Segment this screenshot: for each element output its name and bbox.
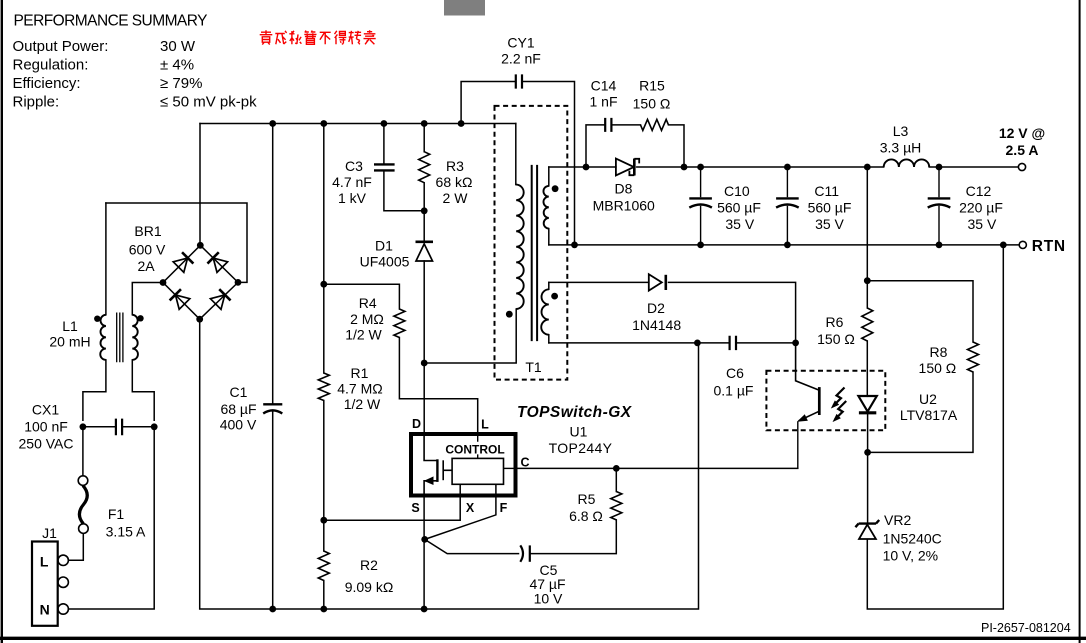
svg-text:2 MΩ: 2 MΩ — [350, 311, 384, 327]
svg-text:1N5240C: 1N5240C — [883, 531, 942, 547]
node X line junction — [320, 517, 327, 524]
node R8 top junction — [864, 277, 871, 284]
T1 core lines — [532, 165, 537, 341]
svg-text:1/2 W: 1/2 W — [344, 396, 381, 412]
T1 bias winding — [541, 289, 549, 334]
svg-text:D1: D1 — [375, 238, 393, 254]
wire D2 cathode to C6 node — [669, 282, 796, 343]
wire HV+ top rail — [200, 123, 516, 125]
gray redaction block — [444, 0, 485, 16]
svg-text:L: L — [40, 554, 49, 570]
svg-text:10 V, 2%: 10 V, 2% — [883, 548, 939, 564]
capacitor C3 leads — [384, 124, 424, 211]
svg-text:BR1: BR1 — [134, 223, 161, 239]
capacitor C10 — [689, 167, 712, 245]
T1 primary winding — [516, 185, 524, 309]
wire secondary bottom stub — [548, 229, 550, 245]
wire sense bus mid segment — [323, 401, 325, 552]
L1 phase dot right — [137, 315, 143, 321]
svg-text:UF4005: UF4005 — [360, 254, 410, 270]
wire BR1 minus output down and primary ground rail — [200, 319, 699, 609]
CX1 node left junction — [80, 423, 87, 430]
wire C pin line to opto emitter — [516, 467, 798, 469]
U1 internal MOSFET — [424, 434, 452, 496]
svg-text:CX1: CX1 — [32, 402, 59, 418]
svg-text:LTV817A: LTV817A — [900, 407, 958, 423]
svg-text:Regulation:: Regulation: — [13, 57, 89, 74]
svg-text:1N4148: 1N4148 — [632, 317, 681, 333]
wire LED to VR2 — [867, 412, 869, 523]
node 12V-R6 junction — [864, 164, 871, 171]
svg-text:Efficiency:: Efficiency: — [13, 75, 81, 92]
output terminal 12V — [1018, 163, 1025, 170]
diode D2 — [649, 274, 666, 290]
capacitor C1 bus wire — [272, 124, 274, 610]
op-amp U1 TOPSwitch control block outer box — [411, 434, 516, 496]
BR1 diode top-left — [173, 252, 194, 273]
svg-text:D2: D2 — [647, 300, 665, 316]
BR1 node right junction — [235, 279, 242, 286]
node 12V-C10 junction — [697, 164, 704, 171]
capacitor CX1 — [116, 419, 122, 436]
U2 phototransistor — [796, 343, 820, 469]
resistor R5 — [611, 492, 622, 520]
wire R5 top lead — [615, 468, 617, 491]
svg-text:2.2 nF: 2.2 nF — [501, 51, 541, 67]
U1 C pin lead — [504, 467, 516, 469]
U2 photodiode LED — [858, 396, 876, 413]
svg-text:4.7 nF: 4.7 nF — [332, 174, 372, 190]
BR1 node top junction — [197, 242, 204, 249]
border frame right edge — [1079, 0, 1081, 643]
wire C5 to R5 — [530, 520, 617, 554]
node bias-ground junction — [694, 340, 701, 347]
svg-text:20 mH: 20 mH — [49, 334, 90, 350]
svg-text:R2: R2 — [360, 557, 378, 573]
wire N pin to CX1 right node — [69, 427, 155, 609]
svg-text:CONTROL: CONTROL — [445, 443, 504, 457]
wire 12V rail D8 to L3 — [637, 166, 884, 168]
svg-text:C6: C6 — [726, 365, 744, 381]
node 12V-snubber left junction — [583, 164, 590, 171]
node RTN-C10 junction — [697, 242, 704, 249]
node ground-R2 junction — [320, 606, 327, 613]
svg-text:C1: C1 — [230, 384, 248, 400]
node RTN-CY1 junction — [571, 242, 578, 249]
node RTN-C11 junction — [784, 242, 791, 249]
svg-text:1/2 W: 1/2 W — [345, 327, 382, 343]
svg-text:35 V: 35 V — [725, 216, 754, 232]
svg-text:PERFORMANCE SUMMARY: PERFORMANCE SUMMARY — [14, 13, 208, 30]
svg-text:400 V: 400 V — [220, 417, 257, 433]
svg-text:R1: R1 — [351, 365, 369, 381]
wire 12V rail L3 to output — [929, 166, 1018, 168]
resistor R6 — [862, 308, 873, 341]
svg-text:560 µF: 560 µF — [808, 200, 852, 216]
svg-text:1 nF: 1 nF — [589, 94, 617, 110]
svg-text:R8: R8 — [930, 344, 948, 360]
svg-text:2 W: 2 W — [443, 190, 469, 206]
wire snubber loop — [586, 125, 684, 167]
svg-text:R6: R6 — [826, 314, 844, 330]
node clamp bottom junction — [421, 207, 428, 214]
U1 L pin lead inside — [477, 434, 479, 458]
transformer T1 dashed box — [495, 106, 568, 380]
wire R4 bottom to L pin — [399, 338, 477, 435]
node D pin to T1 primary junction — [421, 360, 428, 367]
svg-text:U1: U1 — [570, 424, 588, 440]
wire S node diagonal to C5 — [425, 539, 519, 553]
svg-text:30 W: 30 W — [160, 38, 196, 55]
node 12V-snubber right junction — [681, 164, 688, 171]
svg-text:150 Ω: 150 Ω — [633, 96, 671, 112]
node LED-R8 bottom junction — [864, 449, 871, 456]
CX1 node right junction — [151, 423, 158, 430]
diode D1 — [416, 242, 434, 261]
inductor L3 — [884, 159, 929, 167]
svg-text:6.8 Ω: 6.8 Ω — [569, 508, 603, 524]
svg-text:3.15 A: 3.15 A — [106, 524, 146, 540]
wire 12V rail secondary to D8 — [549, 166, 616, 168]
wire BR1 left node to L1 right winding — [132, 283, 163, 315]
wire CX1 left node down to fuse — [82, 427, 84, 476]
node S ground junction — [421, 606, 428, 613]
svg-text:Ripple:: Ripple: — [13, 94, 60, 111]
inductor L1 common-mode choke — [100, 315, 138, 360]
svg-text:≤ 50 mV pk-pk: ≤ 50 mV pk-pk — [160, 94, 257, 111]
svg-text:100 nF: 100 nF — [24, 419, 68, 435]
svg-text:150 Ω: 150 Ω — [817, 331, 855, 347]
svg-text:D: D — [412, 417, 421, 431]
capacitor C14 — [605, 118, 611, 132]
optocoupler U2 dashed box — [766, 371, 885, 431]
svg-text:X: X — [466, 501, 475, 515]
diode D8 MBR1060 schottky — [616, 159, 639, 176]
wire CY1 branch — [461, 82, 574, 245]
svg-text:220 µF: 220 µF — [959, 200, 1003, 216]
node S-F-C5 junction — [421, 536, 428, 543]
svg-text:TOP244Y: TOP244Y — [549, 440, 613, 456]
capacitor C3 — [374, 164, 395, 170]
svg-text:35 V: 35 V — [967, 216, 996, 232]
svg-text:Output Power:: Output Power: — [13, 38, 109, 55]
wire left AC vertical to L1 — [105, 203, 107, 315]
svg-text:600 V: 600 V — [129, 242, 166, 258]
wire X pin branch — [324, 484, 460, 520]
L1 core lines — [117, 313, 123, 363]
wire CX1 left lead — [83, 426, 115, 428]
svg-text:N: N — [40, 602, 50, 618]
wire AC loop rectangle top — [106, 203, 247, 282]
bridge rectifier BR1 — [163, 245, 238, 319]
wire L pin to fuse — [69, 534, 84, 561]
svg-text:T1: T1 — [525, 359, 542, 375]
svg-text:3.3 µH: 3.3 µH — [880, 140, 922, 156]
svg-text:1 kV: 1 kV — [338, 190, 367, 206]
svg-text:F: F — [500, 501, 508, 515]
BR1 diode top-right — [207, 252, 228, 273]
node D2-C6 junction — [792, 340, 799, 347]
capacitor CY1 — [516, 74, 522, 88]
resistor R15 — [641, 119, 669, 130]
BR1 node left junction — [160, 279, 167, 286]
wire RTN rail — [549, 244, 1019, 246]
wire CX1 right lead — [123, 426, 154, 428]
wire clamp bus R3 and D1 — [423, 124, 425, 435]
svg-text:10 V: 10 V — [534, 591, 563, 607]
svg-text:C3: C3 — [345, 158, 363, 174]
svg-text:L: L — [481, 418, 489, 432]
wire R6 to LED — [866, 341, 868, 396]
svg-text:RTN: RTN — [1032, 238, 1066, 255]
svg-text:C10: C10 — [724, 183, 750, 199]
wire R4 branch from bus — [324, 284, 400, 309]
wire BR1 plus output to rail — [199, 124, 201, 246]
node R4 tap junction — [320, 281, 327, 288]
wire L1 left bottom to CX1 — [83, 360, 106, 420]
wire bias top to D2 — [549, 281, 649, 283]
wire bias bottom to C6 — [549, 342, 729, 344]
svg-text:PI-2657-081204: PI-2657-081204 — [981, 621, 1071, 635]
T1 secondary phase dot — [552, 185, 559, 192]
connector J1 — [32, 542, 68, 626]
zener diode VR2 — [855, 520, 879, 539]
svg-text:U2: U2 — [919, 391, 937, 407]
wire T1 primary bottom branch — [424, 309, 516, 363]
svg-text:150 Ω: 150 Ω — [919, 360, 957, 376]
wire R6 bus from 12V rail — [866, 167, 868, 308]
node RTN loop junction — [1000, 242, 1007, 249]
wire R8 top branch — [867, 281, 973, 342]
node rail-sense bus junction — [320, 120, 327, 127]
BR1 node bottom junction — [196, 316, 203, 323]
svg-text:68 µF: 68 µF — [220, 401, 256, 417]
wire sense bus lower segment — [323, 581, 325, 610]
wire S pin down to ground — [423, 496, 425, 610]
output terminal RTN — [1019, 241, 1026, 248]
L1 phase dot left — [94, 316, 100, 322]
resistor R1 — [318, 373, 329, 400]
node rail-CY1 junction — [458, 120, 465, 127]
wire secondary top stub — [548, 167, 550, 186]
BR1 diode bottom-left — [170, 289, 191, 310]
svg-text:± 4%: ± 4% — [160, 57, 194, 74]
svg-text:C: C — [520, 456, 529, 470]
U2 light arrows — [832, 388, 846, 422]
svg-text:C12: C12 — [966, 183, 992, 199]
wire VR2 to bottom loop up to RTN — [867, 245, 1003, 609]
capacitor C12 — [928, 167, 951, 245]
svg-text:L1: L1 — [62, 318, 78, 334]
svg-text:L3: L3 — [893, 123, 909, 139]
node 12V-C11 junction — [784, 164, 791, 171]
svg-text:VR2: VR2 — [884, 512, 911, 528]
capacitor C6 — [730, 336, 736, 350]
node C-R5 junction — [613, 465, 620, 472]
BR1 diode bottom-right — [210, 289, 231, 310]
svg-text:35 V: 35 V — [815, 216, 844, 232]
svg-text:2.5 A: 2.5 A — [1006, 142, 1039, 158]
wire R8 bottom branch — [868, 372, 973, 452]
svg-text:J1: J1 — [42, 525, 57, 541]
capacitor C5 — [520, 545, 530, 561]
svg-text:F1: F1 — [108, 506, 125, 522]
svg-text:TOPSwitch-GX: TOPSwitch-GX — [517, 404, 633, 421]
resistor R8 — [968, 342, 979, 372]
svg-text:R3: R3 — [446, 158, 464, 174]
border frame left edge — [1, 0, 3, 643]
T1 bias phase dot — [551, 293, 558, 300]
svg-text:R4: R4 — [359, 295, 377, 311]
wire F pin lead and diagonal — [425, 484, 496, 539]
capacitor C1 — [263, 404, 282, 413]
svg-text:≥ 79%: ≥ 79% — [160, 75, 202, 92]
svg-text:68 kΩ: 68 kΩ — [436, 174, 473, 190]
wire bias bottom stub — [548, 335, 550, 343]
border frame bottom edge — [0, 637, 1086, 640]
svg-text:9.09 kΩ: 9.09 kΩ — [345, 579, 394, 595]
U1 CONTROL inner box — [452, 458, 503, 484]
resistor R2 — [318, 551, 329, 580]
wire C6 right lead — [737, 342, 796, 344]
svg-text:CY1: CY1 — [507, 35, 534, 51]
svg-text:S: S — [411, 501, 419, 515]
svg-text:R15: R15 — [639, 78, 665, 94]
svg-text:C14: C14 — [591, 78, 617, 94]
svg-text:4.7 MΩ: 4.7 MΩ — [337, 381, 382, 397]
wire sense bus upper segment — [323, 124, 325, 374]
node rail-C1 junction — [269, 120, 276, 127]
svg-text:0.1 µF: 0.1 µF — [714, 383, 754, 399]
node rail-R3 junction — [421, 120, 428, 127]
svg-text:2A: 2A — [137, 258, 155, 274]
wire bias top stub — [548, 282, 550, 289]
wire L1 right bottom to CX1 — [132, 360, 154, 420]
svg-text:MBR1060: MBR1060 — [593, 198, 655, 214]
T1 secondary winding — [543, 186, 548, 229]
svg-text:12 V @: 12 V @ — [999, 125, 1045, 141]
node ground-C1 junction — [269, 606, 276, 613]
red watermark text — [260, 30, 376, 44]
fuse F1 — [78, 476, 88, 534]
svg-text:R5: R5 — [578, 491, 596, 507]
wire T1 primary top stub — [515, 124, 517, 185]
resistor R3 — [419, 152, 430, 183]
node rail-C3 junction — [381, 120, 388, 127]
svg-text:D8: D8 — [615, 181, 633, 197]
node RTN-C12 junction — [936, 242, 943, 249]
capacitor C11 — [776, 167, 799, 245]
node 12V-C12 junction — [936, 164, 943, 171]
T1 primary phase dot — [506, 311, 513, 318]
svg-text:C11: C11 — [814, 183, 839, 199]
resistor R4 — [394, 309, 405, 338]
svg-text:250 VAC: 250 VAC — [19, 436, 74, 452]
svg-text:560 µF: 560 µF — [717, 200, 761, 216]
